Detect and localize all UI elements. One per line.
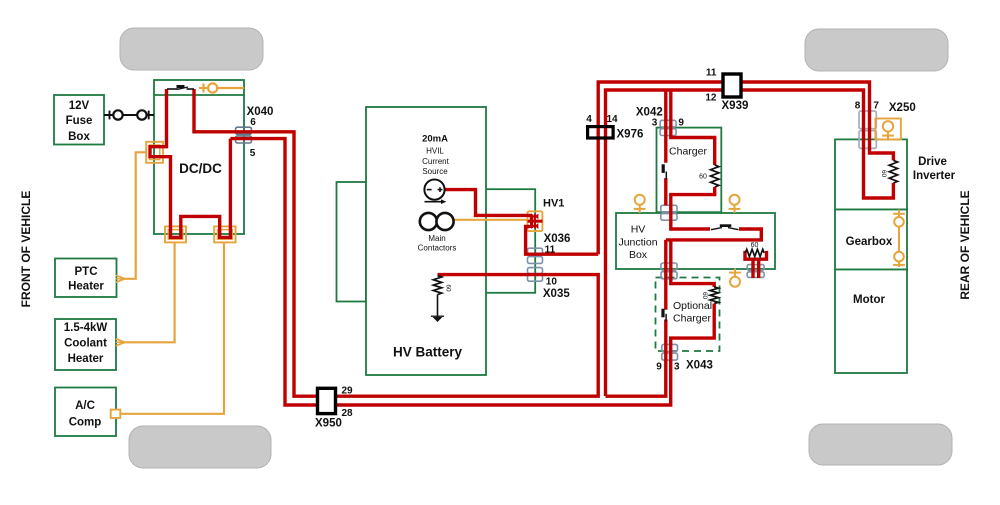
wire red junction box bottom-right resistor assembly: [745, 251, 767, 259]
wire orange Main Contactors to HV1: [452, 219, 528, 221]
resistor 60 charger: [711, 165, 719, 187]
wire red X040 pin 5 to DC/DC loop: [230, 139, 670, 405]
svg-text:X035: X035: [543, 288, 570, 300]
contact bowtie HV1 lower: [531, 223, 538, 229]
svg-text:14: 14: [606, 114, 618, 125]
resistor 60 battery: [433, 276, 441, 295]
connector X040: [236, 127, 252, 134]
svg-text:60: 60: [751, 242, 759, 249]
svg-text:9: 9: [656, 362, 662, 373]
switch junction box: [711, 228, 722, 230]
svg-text:60: 60: [701, 292, 708, 300]
connector drive-inverter pins 8-7: [859, 111, 876, 129]
current source 20mA: [424, 180, 444, 200]
svg-text:Box: Box: [68, 131, 90, 143]
wire red X976 pin 14 riser bottom run to X043 pin 9: [606, 320, 666, 397]
svg-text:Motor: Motor: [853, 294, 885, 306]
wire red DC/DC internal loop: [150, 89, 230, 237]
svg-text:60: 60: [445, 284, 452, 292]
svg-text:DC/DC: DC/DC: [179, 161, 222, 176]
wire battery resistor to ground: [437, 295, 439, 318]
svg-text:FRONT OF VEHICLE: FRONT OF VEHICLE: [19, 191, 33, 308]
svg-text:HVIL: HVIL: [426, 147, 444, 156]
svg-text:Charger: Charger: [673, 313, 711, 325]
contact bowtie HV1 upper: [531, 213, 538, 219]
svg-text:Comp: Comp: [69, 417, 102, 429]
svg-text:Gearbox: Gearbox: [846, 236, 893, 248]
connector DC/DC bottom-right (orange): [214, 226, 235, 242]
svg-text:X950: X950: [315, 418, 342, 430]
connector Coolant Heater (orange arrow): [116, 339, 125, 346]
connector DC/DC bottom-left (orange): [165, 226, 186, 242]
connector DC/DC left (orange): [146, 142, 163, 163]
svg-text:X042: X042: [636, 107, 663, 119]
svg-text:29: 29: [342, 386, 354, 397]
Charger box: [657, 128, 722, 213]
DC/DC converter box: [154, 80, 244, 234]
switch DC/DC top: [167, 88, 178, 90]
svg-text:6: 6: [250, 117, 256, 128]
svg-text:Heater: Heater: [68, 281, 104, 293]
PTC Heater box: [55, 259, 117, 298]
wire red HV1 down through X036 pin 11 to riser of X976 pin 4: [526, 227, 599, 255]
connector X250 (orange box): [875, 119, 901, 140]
svg-text:8: 8: [855, 101, 861, 112]
svg-text:12V: 12V: [69, 100, 90, 112]
wire red optional charger switch leg upper: [664, 240, 667, 310]
svg-text:X036: X036: [544, 233, 571, 245]
wheel front-left: [120, 28, 263, 70]
svg-text:HV: HV: [631, 224, 646, 236]
resistor 60 junction box: [745, 249, 764, 256]
A/C Compressor box: [55, 388, 116, 437]
svg-text:Drive: Drive: [918, 156, 947, 168]
svg-text:Box: Box: [629, 249, 648, 261]
svg-text:3: 3: [674, 362, 680, 373]
svg-text:Current: Current: [422, 157, 449, 166]
wire red charger left leg (X042 pin 3) lower part: [664, 178, 667, 205]
svg-text:3: 3: [652, 117, 658, 128]
interlock chain gearbox: [898, 210, 900, 268]
wire red inside HV1 with exit to X036: [530, 215, 533, 221]
connector PTC Heater (orange arrow): [116, 275, 125, 282]
wheel rear-right: [809, 424, 952, 465]
wire red junction box to optional charger resistor branch: [671, 240, 714, 287]
svg-text:X250: X250: [889, 102, 916, 114]
wire red drive inverter resistor return rail to X976 pin 14: [606, 90, 894, 396]
connector X976 (black): [588, 127, 614, 138]
connector A/C Comp (orange square): [111, 410, 121, 418]
svg-text:Fuse: Fuse: [66, 115, 93, 127]
interlock symbol junction-box top-right: [730, 195, 740, 205]
svg-text:Coolant: Coolant: [64, 338, 107, 350]
HV Junction Box: [616, 213, 775, 269]
connector X950 (black): [318, 388, 336, 413]
svg-text:Junction: Junction: [618, 237, 657, 249]
svg-text:1.5-4kW: 1.5-4kW: [64, 322, 108, 334]
svg-text:X939: X939: [722, 100, 749, 112]
switch optional charger: [661, 309, 664, 318]
wire orange DC/DC top feed with plus and circle terminal: [199, 87, 208, 89]
svg-text:Contactors: Contactors: [418, 244, 457, 253]
connector X939 (black): [723, 74, 741, 97]
svg-text:Source: Source: [422, 167, 448, 176]
HV Battery right tab: [486, 189, 536, 293]
svg-text:A/C: A/C: [75, 400, 95, 412]
wire 12V fuse box to DC/DC with inline connector: [104, 114, 154, 116]
switch charger: [662, 164, 665, 173]
svg-text:60: 60: [699, 174, 707, 181]
connector junction-box top: [661, 205, 677, 212]
main contactors: [420, 213, 437, 230]
wire red junction box switch to U return: [666, 229, 762, 240]
ground: [433, 317, 443, 322]
svg-text:10: 10: [546, 276, 558, 287]
wire orange PTC Heater to DC/DC left connector: [125, 152, 146, 278]
interlock symbol X250: [883, 121, 893, 131]
wire red charger resistor branch X042 pin 9: [671, 90, 715, 165]
resistor 60 optional charger: [710, 287, 718, 304]
svg-text:Charger: Charger: [669, 146, 707, 158]
interlock symbol junction-box top-left: [635, 195, 645, 205]
Optional Charger box (dashed): [656, 278, 720, 352]
12V Fuse Box: [54, 95, 104, 145]
svg-text:HV Battery: HV Battery: [393, 345, 463, 360]
svg-text:60: 60: [880, 170, 887, 178]
svg-text:7: 7: [873, 101, 879, 112]
svg-text:X043: X043: [686, 360, 713, 372]
svg-text:5: 5: [250, 148, 256, 159]
DC/DC inner partition line: [154, 94, 244, 96]
svg-text:PTC: PTC: [75, 266, 98, 278]
HV Battery: [366, 107, 486, 375]
Motor box: [835, 270, 907, 374]
svg-text:Optional: Optional: [673, 300, 712, 312]
connector X035: [528, 268, 543, 274]
Drive Inverter box: [835, 139, 907, 209]
svg-text:Main: Main: [428, 234, 445, 243]
wire red current source to HV1: [445, 190, 532, 216]
connector HV1 (orange box): [528, 211, 543, 231]
HV Battery left tab: [337, 182, 367, 302]
connector X036: [528, 248, 543, 255]
svg-text:HV1: HV1: [543, 198, 564, 210]
wire orange Coolant Heater to DC/DC bottom-left connector: [125, 242, 175, 342]
connector X043: [662, 344, 678, 351]
svg-text:Heater: Heater: [68, 353, 104, 365]
svg-text:11: 11: [545, 245, 556, 256]
wire red battery sense resistor to X035 pin 10 and down: [194, 89, 598, 396]
interlock symbol junction-box bottom: [730, 277, 740, 287]
connector junction-box bottom-right: [747, 265, 764, 271]
Coolant Heater box: [55, 319, 116, 370]
wheel rear-left: [129, 426, 271, 468]
wire red charger left leg upper part: [664, 90, 667, 163]
svg-text:12: 12: [705, 93, 717, 104]
svg-text:4: 4: [586, 114, 592, 125]
svg-text:X976: X976: [617, 129, 644, 141]
wire red X976 pin 4 riser and top rail to drive inverter: [598, 82, 893, 254]
connector junction-box bottom-left: [661, 263, 677, 270]
svg-text:Inverter: Inverter: [913, 170, 956, 182]
resistor 60 drive inverter: [889, 160, 897, 183]
wire red charger resistor return to junction box switch: [671, 187, 715, 229]
svg-text:9: 9: [678, 117, 684, 128]
wire red optional charger resistor return to X043 pin 3: [671, 304, 715, 349]
wheel front-right: [805, 29, 948, 71]
svg-text:20mA: 20mA: [422, 134, 448, 145]
svg-text:REAR OF VEHICLE: REAR OF VEHICLE: [958, 190, 972, 299]
connector X042: [660, 120, 676, 127]
svg-text:28: 28: [342, 408, 354, 419]
svg-text:11: 11: [706, 68, 717, 79]
wire orange A/C Comp to DC/DC bottom-right connector: [120, 242, 224, 413]
Gearbox box: [835, 210, 907, 270]
